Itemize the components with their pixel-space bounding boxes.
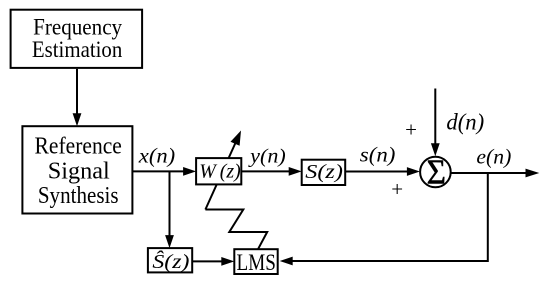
svg-text:s(n): s(n) <box>360 143 396 167</box>
svg-text:+: + <box>405 118 417 142</box>
block: LMS algorithm <box>234 249 277 276</box>
block: Frequency Estimation <box>11 10 143 68</box>
wire: S-hat(z) to LMS <box>192 257 234 266</box>
svg-text:e(n): e(n) <box>476 145 511 169</box>
svg-text:y(n): y(n) <box>248 146 286 168</box>
wire: e(n) feedback down and left into LMS <box>280 173 488 265</box>
svg-text:W (z): W (z) <box>199 160 241 182</box>
svg-text:d(n): d(n) <box>446 110 484 135</box>
wire: Reference Signal Synthesis to W(z), signal x(n) <box>133 167 196 176</box>
svg-text:Synthesis: Synthesis <box>38 183 119 209</box>
svg-text:Reference: Reference <box>35 134 122 160</box>
wire: adaptation arrow through W(z) <box>205 131 241 210</box>
block: secondary path estimate S-hat(z) <box>148 248 192 273</box>
wire: Frequency Estimation to Reference Signal Synthesis <box>73 69 82 126</box>
wire: S(z) to summer, signal s(n) <box>346 167 420 176</box>
svg-text:LMS: LMS <box>237 250 276 276</box>
summer: sigma junction <box>420 152 451 191</box>
svg-text:Ŝ(z): Ŝ(z) <box>152 251 189 273</box>
wire: summer output e(n) <box>451 169 539 178</box>
svg-text:Signal: Signal <box>48 158 110 184</box>
wire: d(n) input into summer <box>431 89 440 157</box>
wire: zigzag from LMS up to W(z) adaptation arrow <box>205 210 267 250</box>
block: secondary path S(z) <box>302 160 346 185</box>
svg-text:Estimation: Estimation <box>32 37 123 63</box>
svg-text:x(n): x(n) <box>138 143 175 167</box>
svg-text:+: + <box>391 177 403 201</box>
svg-text:Σ: Σ <box>427 152 446 191</box>
wire: x(n) branch down to S-hat(z) <box>165 171 174 248</box>
wire: W(z) to S(z), signal y(n) <box>242 167 302 176</box>
block: adaptive filter W(z) <box>196 158 241 184</box>
block: Reference Signal Synthesis <box>22 126 132 213</box>
svg-text:S(z): S(z) <box>305 161 343 183</box>
